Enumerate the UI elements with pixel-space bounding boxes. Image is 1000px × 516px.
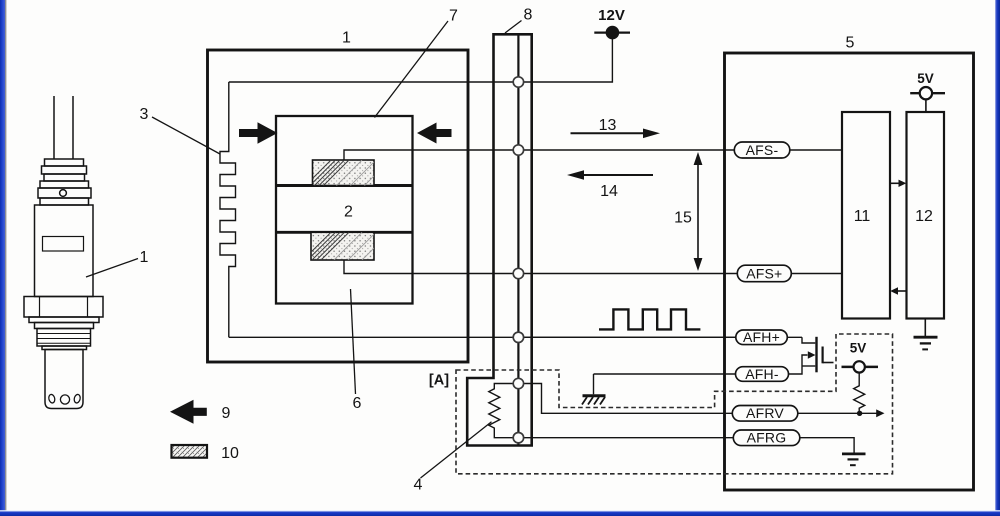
svg-text:AFS-: AFS- (746, 142, 779, 158)
svg-text:12V: 12V (598, 7, 625, 24)
svg-text:13: 13 (599, 117, 617, 134)
svg-text:[A]: [A] (429, 373, 449, 389)
svg-text:8: 8 (524, 6, 533, 23)
svg-text:AFS+: AFS+ (746, 266, 782, 282)
svg-text:5V: 5V (917, 71, 934, 86)
svg-text:1: 1 (140, 249, 149, 266)
svg-text:4: 4 (414, 476, 423, 493)
svg-text:AFH-: AFH- (745, 366, 779, 382)
svg-text:AFRV: AFRV (746, 405, 784, 421)
svg-text:15: 15 (674, 209, 692, 226)
svg-text:AFRG: AFRG (747, 430, 787, 446)
svg-text:5: 5 (846, 34, 855, 51)
svg-text:14: 14 (600, 183, 618, 200)
svg-text:3: 3 (140, 106, 149, 123)
svg-text:9: 9 (222, 405, 231, 422)
svg-text:2: 2 (344, 203, 353, 220)
svg-text:6: 6 (353, 395, 362, 412)
svg-text:11: 11 (854, 208, 871, 225)
svg-text:5V: 5V (850, 341, 867, 356)
svg-text:12: 12 (915, 208, 933, 225)
svg-text:AFH+: AFH+ (743, 329, 780, 345)
svg-text:10: 10 (221, 445, 239, 462)
svg-text:7: 7 (449, 7, 458, 24)
svg-text:1: 1 (342, 29, 351, 46)
